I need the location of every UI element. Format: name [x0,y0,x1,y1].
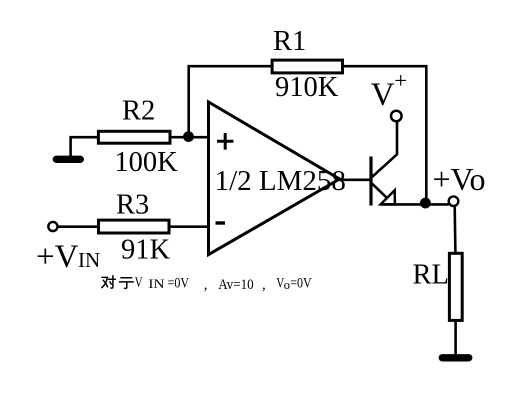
svg-text:+: + [394,68,407,93]
node output junction dot [420,198,431,209]
terminal V+ [391,111,402,122]
wire feedback loop: junction up, across top, down to output node [189,66,427,203]
svg-text:R1: R1 [273,26,306,57]
svg-text:,: , [262,277,266,293]
svg-text:+Vo: +Vo [433,161,486,197]
svg-text:Av=10: Av=10 [218,277,254,293]
op-amp + input sign [217,133,234,150]
ground (left of R2) [56,156,80,163]
transistor Q1 emitter arrow [381,190,395,204]
svg-text:1/2 LM258: 1/2 LM258 [215,165,346,197]
transistor Q1 emitter [372,184,388,200]
svg-text:V: V [371,77,395,113]
wire R2 to op-amp + input [170,136,209,139]
wire RL to ground [454,321,457,355]
svg-text:910K: 910K [275,72,339,103]
svg-text:R3: R3 [116,189,149,220]
ground (below RL) [442,354,468,361]
svg-text:IN: IN [78,248,100,272]
annotation text: 对于 (hanzi drawn as strokes) [102,276,134,289]
svg-text:91K: 91K [121,234,171,265]
svg-text:=0V: =0V [290,276,312,292]
wire emitter to output node and +Vo terminal [381,203,449,206]
node junction dot (+ input / feedback) [183,131,194,142]
resistor R1 [272,60,342,73]
resistor R3 [99,220,170,233]
svg-text:=0V: =0V [168,276,190,292]
resistor R2 [98,131,170,143]
wire R3 to op-amp - input [169,225,209,228]
svg-text:V: V [135,275,143,291]
svg-text:+V: +V [36,239,79,275]
svg-text:RL: RL [413,260,449,291]
transistor Q1 collector [372,122,397,177]
terminal +Vo [449,196,459,206]
transistor Q1 base bar [369,157,372,206]
wire VIN to R3 [58,225,98,228]
svg-text:R2: R2 [122,96,155,127]
svg-text:IN: IN [148,276,165,291]
op-amp U1 triangle [209,102,340,255]
wire +Vo to RL [453,206,456,253]
op-amp - input sign [216,221,226,224]
wire ground to R2 [71,137,97,157]
svg-text:o: o [284,278,290,292]
wire op-amp output to transistor base [338,179,371,182]
terminal +VIN [48,222,57,231]
resistor RL [449,253,462,320]
svg-text:,: , [204,277,208,293]
svg-text:100K: 100K [114,147,178,178]
